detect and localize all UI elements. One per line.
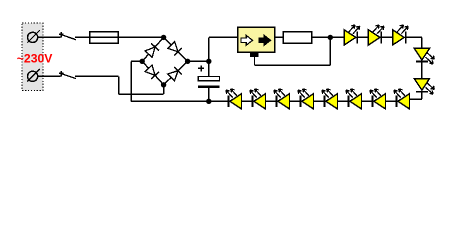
switch S2 [59,71,76,79]
bridge wire T-L [142,37,163,61]
wire cap top lead [208,61,210,76]
diode D4 (bottom to right) [168,67,182,81]
wire fuse to bridge AC1 [118,36,164,38]
wire LED D14-D15 [337,100,348,102]
capacitor C1 positive plate [198,76,219,80]
converter input arrow (open) [241,35,253,45]
LED D5 [344,25,360,45]
wire AC2 horizontal [119,93,164,95]
wire LED D7 to corner [406,36,422,38]
wire bridge to cap top [188,60,209,62]
DC/DC converter U1 [238,27,275,52]
wire to converter [209,36,238,38]
node cap bottom [206,99,211,104]
LED D13 [298,89,314,109]
label ~230V [17,52,53,66]
diode D1 (left to top) [145,43,159,57]
wire converter to resistor [275,36,284,38]
LED D6 [368,25,384,45]
LED D9 [414,79,434,95]
wire junction to LED1 [330,36,344,38]
LED D16 [370,89,386,109]
node junction after R1 [328,35,333,40]
wire resistor to junction [312,36,331,38]
wire LED D11-D12 [265,100,276,102]
bridge wire B-R [164,61,188,85]
wire LED D6-D7 [382,36,393,38]
wire S1 to fuse [75,36,90,38]
node cap top [206,59,211,64]
svg-text:~230V: ~230V [17,52,53,66]
LED D17 [394,89,410,109]
wire cap bottom lead [208,88,210,101]
bridge wire L-B [142,61,163,85]
terminal 1 [27,30,39,42]
wire LED D16-D17 [385,100,396,102]
wire feedback horizontal [255,64,331,66]
wire LED D12-D13 [289,100,300,102]
LED D8 [414,48,434,64]
LED D10 [226,89,242,109]
capacitor C1 negative plate [198,85,219,88]
converter feedback pin tab [250,53,259,57]
wire feedback up to junction [329,37,331,65]
connector block X1 [22,23,43,90]
LED D11 [250,89,266,109]
wire DC- down [130,61,132,101]
wire feedback down from tab [254,57,256,65]
wire DC- bottom rail [131,100,209,102]
diode D2 (top to right) [168,42,182,56]
LED D15 [346,89,362,109]
terminal 2 [27,69,39,81]
wire S2 right [75,75,119,77]
wire column to bottom row [409,98,422,100]
wire LED D15-D16 [361,100,372,102]
LED D12 [274,89,290,109]
fuse F1 [90,32,119,44]
wire bridge DC- stub [131,60,142,62]
bridge wire T-R [164,37,188,61]
node AC1 (bridge top) [161,35,166,40]
diode D3 (left to bottom) [145,65,159,79]
wire column down 1 [421,37,423,48]
capacitor C1 plus sign [198,65,204,71]
wire cap node up [208,37,210,61]
wire cap to LED row [209,100,229,102]
wire column down 3 [421,92,423,99]
LED D7 [393,25,409,45]
wire LED D13-D14 [313,100,324,102]
wire up to bridge AC2 [163,85,165,94]
switch S1 [59,32,76,40]
wire terminal1 to S1 [38,36,61,38]
node AC2 (bridge bottom) [161,82,166,87]
wire column down 2 [421,62,423,79]
resistor R1 [283,32,312,43]
wire LED D5-D6 [358,36,369,38]
node DC+ (bridge right) [185,59,190,64]
wire terminal2 to S2 [38,75,61,77]
wire LED D10-D11 [241,100,252,102]
LED D14 [322,89,338,109]
converter output arrow (solid) [259,35,271,45]
node DC- (bridge left) [140,59,145,64]
wire down at x118 [118,76,120,94]
